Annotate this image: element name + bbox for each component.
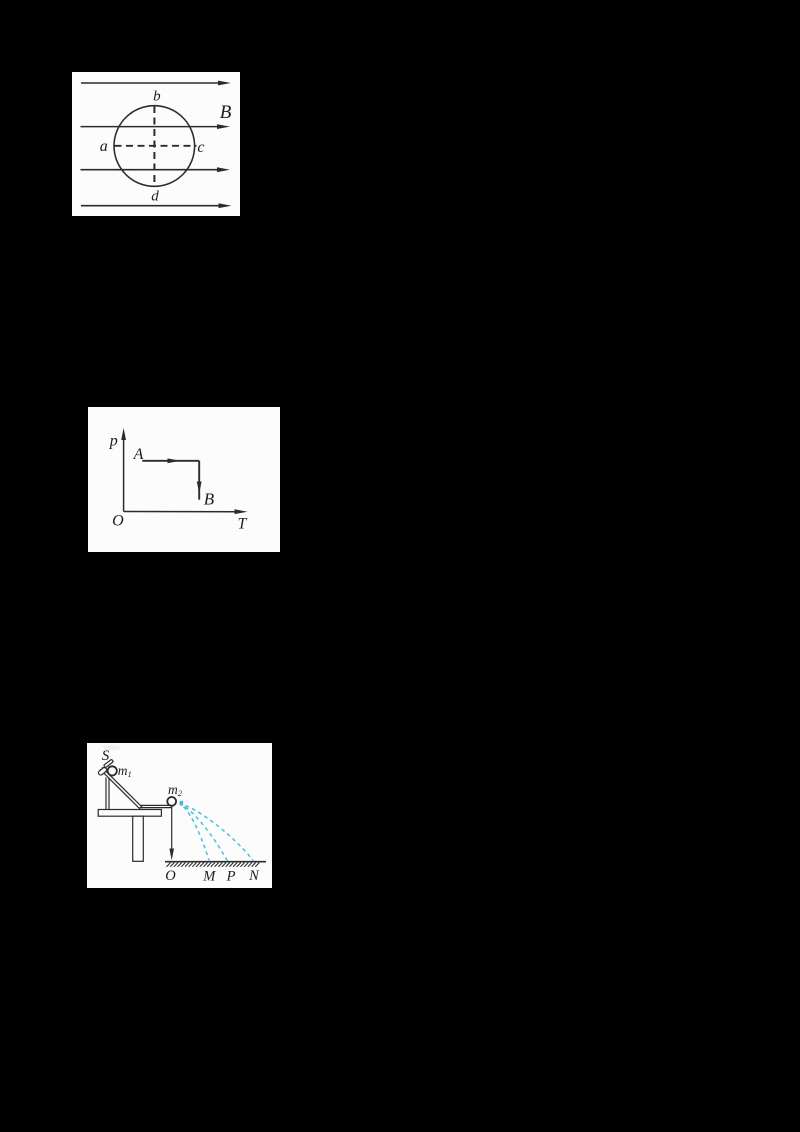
svg-text:T: T: [238, 516, 248, 533]
tabletop: [98, 810, 161, 817]
svg-text:A: A: [133, 446, 144, 463]
svg-text:B: B: [220, 102, 232, 123]
drop line with arrow: [171, 806, 173, 854]
trajectory to N: [181, 804, 254, 861]
svg-text:b: b: [153, 89, 161, 105]
process A to corner: [142, 458, 199, 463]
ball m1: [108, 766, 117, 775]
figure 2: p-T diagram: [88, 407, 280, 552]
trajectory to M: [181, 804, 210, 860]
figure 3: spring launcher on table with trajectories: [87, 743, 272, 888]
p axis: [121, 428, 126, 512]
svg-text:M: M: [202, 868, 216, 884]
spring gun back cap: [98, 767, 108, 776]
figure 1: magnetic field region with circle abcd: [72, 72, 240, 216]
svg-text:B: B: [204, 490, 215, 509]
process corner down to B: [197, 461, 202, 500]
svg-text:p: p: [109, 433, 118, 450]
cyan start mark: [180, 801, 184, 806]
table leg: [133, 816, 144, 861]
dashed diameter a-c: [115, 145, 197, 147]
horizontal track to launch point: [140, 804, 172, 806]
field line 2: [81, 124, 231, 129]
field line 4: [81, 203, 232, 208]
ground hatching: [167, 863, 260, 867]
svg-text:d: d: [151, 188, 159, 204]
svg-text:O: O: [112, 513, 124, 530]
incline track (double line): [100, 769, 141, 810]
spring gun barrel plate: [104, 759, 114, 768]
T axis: [124, 509, 248, 514]
svg-text:O: O: [165, 868, 176, 884]
svg-text:P: P: [226, 868, 236, 884]
field line 1: [81, 81, 231, 86]
svg-text:m1: m1: [118, 763, 132, 779]
ground line: [165, 861, 266, 863]
circle boundary: [114, 106, 195, 187]
dashed diameter b-d: [153, 106, 155, 186]
trajectory to P: [181, 804, 228, 861]
svg-text:N: N: [248, 868, 260, 884]
svg-text:S: S: [102, 748, 110, 764]
svg-text:c: c: [197, 139, 204, 156]
field line 3: [81, 167, 231, 172]
svg-text:a: a: [100, 138, 108, 155]
svg-text:m2: m2: [168, 782, 183, 798]
support post: [105, 778, 107, 810]
ball m2: [167, 797, 176, 806]
faint smudge above S: [104, 746, 120, 751]
